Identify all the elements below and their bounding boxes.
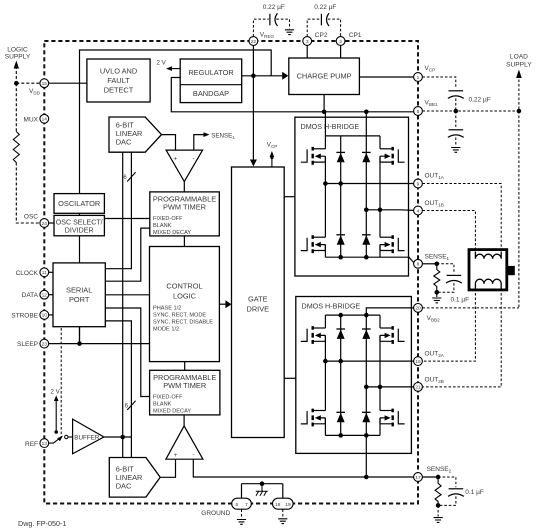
motor body bbox=[469, 250, 515, 290]
node charge pump VBB1 junction bbox=[322, 110, 327, 115]
node regulator output junction bbox=[251, 74, 256, 79]
pin 3 CP2 bbox=[303, 32, 328, 45]
svg-text:UVLO AND: UVLO AND bbox=[100, 67, 137, 76]
wire serial line2 to PWM1 blank bbox=[105, 228, 150, 281]
wire serial line4 to PWM2 bbox=[105, 308, 149, 397]
pin 21 OUT2B bbox=[414, 376, 444, 391]
svg-text:23: 23 bbox=[42, 341, 48, 347]
svg-text:0.22 µF: 0.22 µF bbox=[314, 4, 336, 11]
wire motor to OUT2A bbox=[422, 289, 475, 362]
wire cap to VBB1 line bbox=[455, 98, 457, 111]
pin 15 VDD bbox=[29, 79, 49, 96]
diode bridge2 upper left bbox=[336, 315, 345, 435]
pin 17 SENSE2 bbox=[414, 466, 452, 482]
pin 22 VREG bbox=[249, 32, 275, 46]
ground earth below VBB1 caps bbox=[451, 148, 460, 153]
svg-text:STROBE: STROBE bbox=[11, 312, 38, 319]
wire bridge2 sense drop bbox=[365, 435, 367, 477]
svg-text:SENSE1: SENSE1 bbox=[425, 253, 450, 261]
node sense1 bottom junction bbox=[435, 290, 440, 295]
transistor bridge2 low right bbox=[380, 387, 405, 436]
wire OUT1B to motor bbox=[422, 211, 475, 252]
svg-text:0.22 µF: 0.22 µF bbox=[263, 4, 285, 11]
node sense2 bus junction bbox=[364, 475, 369, 480]
svg-text:DAC: DAC bbox=[116, 481, 132, 490]
wire OUT1A node to pin 9 bbox=[325, 183, 413, 185]
svg-text:GROUND: GROUND bbox=[201, 510, 230, 517]
label 2V reference bbox=[51, 388, 61, 432]
wire OUT1B node to pin 4 bbox=[366, 209, 413, 212]
wire gate drive to bridge1 bbox=[284, 196, 295, 198]
svg-text:6: 6 bbox=[235, 502, 238, 508]
svg-text:REF: REF bbox=[25, 441, 38, 448]
svg-text:17: 17 bbox=[415, 475, 421, 481]
svg-text:19: 19 bbox=[285, 502, 291, 508]
wire VDD rail top (behind blocks) bbox=[49, 50, 271, 344]
pin 20 VBB2 bbox=[414, 304, 440, 323]
node buffer output junction bbox=[120, 435, 125, 440]
svg-text:5: 5 bbox=[417, 109, 420, 115]
ground earth sense2 bbox=[434, 518, 443, 523]
wire comparator1 output to PWM1 bbox=[183, 182, 185, 192]
wire OUT1A to motor bbox=[422, 184, 501, 252]
node sense2 bottom junction bbox=[436, 503, 441, 508]
capacitor 0.22uF at VREG bbox=[253, 4, 289, 37]
wire regulator to charge pump with arrow bbox=[242, 72, 289, 80]
wire bridge1 sense to pin 8 bbox=[380, 257, 414, 262]
wire DAC1 to comparator1 plus bbox=[162, 135, 176, 151]
block OSC SELECT / DIVIDER bbox=[54, 215, 104, 235]
svg-text:-: - bbox=[192, 452, 194, 459]
node bridge1 feed junction bbox=[364, 110, 369, 115]
svg-text:SYNC. RECT. DISABLE: SYNC. RECT. DISABLE bbox=[153, 320, 213, 326]
LOGIC SUPPLY label bbox=[5, 47, 31, 61]
svg-text:SENSE1: SENSE1 bbox=[211, 133, 235, 141]
svg-text:13: 13 bbox=[42, 441, 48, 447]
node buffer input bubble bbox=[65, 435, 73, 438]
node bridge2 rail diode right bbox=[364, 433, 369, 438]
node OUT1A diode bbox=[338, 181, 343, 186]
chip dashed border bbox=[44, 41, 418, 504]
svg-text:2 V: 2 V bbox=[157, 60, 167, 67]
svg-text:BLANK: BLANK bbox=[153, 402, 172, 408]
svg-text:11: 11 bbox=[42, 270, 47, 276]
svg-text:MIXED DECAY: MIXED DECAY bbox=[153, 409, 191, 415]
wire STROBE pin to serial port bbox=[49, 314, 53, 316]
pin 4 OUT1B bbox=[414, 200, 444, 215]
diode bridge1 lower left bbox=[336, 235, 345, 245]
wire serial line1 to DAC1 bus bbox=[105, 152, 131, 269]
pin 18 19 GROUND oval bbox=[273, 498, 294, 509]
svg-text:OSC: OSC bbox=[24, 214, 38, 221]
svg-text:OSC SELECT/: OSC SELECT/ bbox=[56, 219, 103, 227]
svg-text:Dwg. FP-050-1: Dwg. FP-050-1 bbox=[18, 519, 66, 528]
wire SLEEP line to control logic bbox=[49, 343, 150, 345]
svg-text:24: 24 bbox=[42, 221, 48, 227]
wire charge pump to VCP pin 1 bbox=[359, 76, 413, 78]
load supply arrow bbox=[516, 70, 522, 308]
node sleep junction bbox=[77, 341, 82, 346]
svg-text:CHARGE PUMP: CHARGE PUMP bbox=[297, 72, 352, 81]
node internal ground junction bbox=[260, 481, 265, 486]
svg-text:DMOS H-BRIDGE: DMOS H-BRIDGE bbox=[302, 301, 361, 310]
svg-text:FIXED-OFF: FIXED-OFF bbox=[153, 395, 183, 401]
wire VBB1 bus from regulator bbox=[171, 78, 413, 112]
svg-text:SYNC. RECT. MODE: SYNC. RECT. MODE bbox=[153, 313, 206, 319]
wire sense2 to earth bbox=[437, 505, 439, 516]
ground chassis symbol internal bbox=[256, 484, 268, 496]
svg-text:22: 22 bbox=[251, 39, 257, 45]
wire control logic to gate drive with arrow bbox=[219, 300, 231, 308]
node bridge2 rail left diode bbox=[338, 313, 343, 318]
transistor bridge1 high left bbox=[301, 136, 326, 184]
capacitor 0.22uF lower at VBB1 bbox=[448, 130, 464, 138]
capacitor 0.1uF sense2 bbox=[438, 477, 484, 505]
block DAC1 6-BIT LINEAR DAC bbox=[109, 117, 162, 152]
wire bridge1 feed left bbox=[324, 112, 326, 136]
diode bridge2 lower right bbox=[362, 412, 371, 422]
wire PWM2 to comparator2 bbox=[183, 415, 185, 426]
svg-text:8: 8 bbox=[417, 262, 420, 268]
svg-text:BLANK: BLANK bbox=[153, 223, 172, 229]
svg-text:SUPPLY: SUPPLY bbox=[506, 62, 532, 69]
wire bridge2 bottom rail bbox=[325, 434, 380, 436]
LOAD SUPPLY label bbox=[506, 54, 532, 69]
svg-text:MUX: MUX bbox=[24, 116, 39, 123]
svg-text:CONTROL: CONTROL bbox=[166, 282, 202, 291]
svg-text:PWM TIMER: PWM TIMER bbox=[163, 203, 206, 212]
bus slash 6 lower bbox=[125, 401, 136, 410]
svg-text:16: 16 bbox=[415, 359, 421, 365]
block DMOS H-BRIDGE 1 bbox=[295, 117, 409, 276]
wire VBB2 pin to bridge2 rail bbox=[366, 308, 413, 315]
svg-text:10: 10 bbox=[42, 313, 48, 319]
node bridge1 rail diode left bbox=[338, 255, 343, 260]
node OUT1B diode bbox=[364, 208, 369, 213]
svg-text:MIXED DECAY: MIXED DECAY bbox=[153, 230, 191, 236]
wire comparator1 minus to SENSE1 label bbox=[194, 132, 235, 150]
svg-text:4: 4 bbox=[417, 208, 420, 214]
wire CP2 pin to charge pump bbox=[306, 46, 308, 58]
svg-text:+: + bbox=[173, 155, 177, 162]
wire REF divider dashed bbox=[60, 328, 62, 437]
svg-text:PHASE 1/2: PHASE 1/2 bbox=[153, 306, 181, 312]
wire ground pin 18 19 to earth bbox=[282, 509, 284, 518]
block REGULATOR / BANDGAP bbox=[180, 59, 242, 103]
ground earth at VREG cap bbox=[285, 30, 294, 35]
svg-text:SUPPLY: SUPPLY bbox=[5, 54, 31, 61]
block DAC2 6-BIT LINEAR DAC bbox=[109, 458, 160, 498]
svg-text:CP2: CP2 bbox=[315, 32, 328, 39]
wire internal ground bus bbox=[242, 484, 283, 499]
svg-text:12: 12 bbox=[42, 293, 48, 299]
svg-text:2: 2 bbox=[339, 39, 342, 45]
svg-text:REGULATOR: REGULATOR bbox=[188, 68, 233, 77]
capacitor 0.1uF sense1 bbox=[437, 264, 469, 304]
op-amp comparator 2 bbox=[166, 426, 203, 459]
svg-text:1: 1 bbox=[417, 75, 420, 81]
wire bridge2 top rail bbox=[325, 314, 380, 316]
wire serial line3 to control logic bbox=[105, 294, 149, 296]
wire DAC reference bus bbox=[122, 152, 124, 457]
wire bridge1 top rail bbox=[325, 135, 380, 137]
wire REF pin wiper arrow bbox=[49, 436, 63, 443]
resistor R-OSC bbox=[13, 132, 19, 163]
diode bridge1 upper right bbox=[362, 136, 371, 257]
pin 6 7 GROUND oval bbox=[232, 498, 252, 509]
wire logic supply to VDD pin bbox=[16, 82, 40, 84]
op-amp comparator 1 bbox=[166, 150, 203, 182]
svg-text:LOGIC: LOGIC bbox=[7, 47, 28, 54]
wire bridge1 bottom rail bbox=[325, 256, 380, 258]
block DMOS H-BRIDGE 2 bbox=[296, 297, 412, 454]
node OUT2B leg bbox=[378, 385, 383, 390]
svg-text:14: 14 bbox=[42, 117, 48, 123]
pin 23 SLEEP bbox=[17, 339, 49, 348]
transistor bridge2 low left bbox=[301, 361, 326, 435]
wire serial port bottom stub bbox=[79, 327, 81, 344]
diode bridge2 lower left bbox=[336, 412, 345, 422]
svg-text:PORT: PORT bbox=[69, 295, 90, 304]
svg-text:FAULT: FAULT bbox=[107, 76, 130, 85]
pin 12 DATA bbox=[22, 290, 49, 299]
ground earth sense1 bbox=[432, 292, 441, 303]
pin 10 STROBE bbox=[11, 311, 48, 320]
svg-text:21: 21 bbox=[415, 385, 421, 391]
wire logic supply down to resistor bbox=[15, 83, 17, 131]
pin 24 OSC bbox=[24, 214, 49, 228]
wire resistor to OSC pin bbox=[16, 163, 40, 224]
transistor bridge2 high left bbox=[301, 315, 326, 361]
wire charge pump bottom to VBB1 bus bbox=[323, 95, 325, 112]
pin 9 OUT1A bbox=[414, 173, 445, 188]
wire CP1 pin to charge pump bbox=[340, 46, 342, 58]
svg-text:DRIVE: DRIVE bbox=[247, 305, 270, 314]
wire CLOCK pin to serial port bbox=[49, 271, 53, 273]
ground earth below pins 6 7 bbox=[237, 520, 246, 525]
svg-text:DETECT: DETECT bbox=[104, 86, 134, 95]
wire lower cap to ground bbox=[455, 137, 457, 146]
pin 8 SENSE1 bbox=[414, 253, 450, 268]
block SERIAL PORT bbox=[53, 263, 105, 327]
wire OSC SELECT to PWM timer 1 bbox=[104, 218, 149, 220]
inductor motor winding 1 bbox=[475, 252, 501, 259]
node OUT2A leg bbox=[323, 359, 328, 364]
svg-text:+: + bbox=[174, 452, 178, 459]
wire comparator2 minus to sense bus bbox=[193, 459, 413, 477]
block CONTROL LOGIC bbox=[150, 247, 220, 362]
wire VBB1 to lower cap bbox=[455, 111, 457, 127]
wire control logic to PWM2 bbox=[184, 362, 186, 371]
svg-text:FIXED-OFF: FIXED-OFF bbox=[153, 216, 183, 222]
block UVLO AND FAULT DETECT bbox=[87, 59, 150, 102]
label 2V regulator output bbox=[157, 60, 181, 71]
svg-text:15: 15 bbox=[42, 81, 48, 87]
wire ground pin 6 7 to earth bbox=[241, 509, 243, 518]
pin 14 MUX bbox=[24, 114, 49, 123]
transistor bridge2 high right bbox=[380, 315, 405, 387]
wire SENSE2 pin to RC bbox=[422, 476, 438, 478]
svg-text:GATE: GATE bbox=[248, 295, 268, 304]
transistor bridge1 low left bbox=[301, 184, 326, 258]
svg-text:BUFFER: BUFFER bbox=[74, 434, 100, 441]
svg-text:9: 9 bbox=[417, 181, 420, 187]
block OSCILATOR bbox=[54, 194, 104, 214]
diode bridge1 lower right bbox=[362, 235, 371, 245]
pin 11 CLOCK bbox=[16, 268, 49, 277]
wire DAC2 to comparator2 plus bbox=[160, 459, 175, 477]
node logic supply junction bbox=[14, 81, 19, 86]
capacitor 0.22uF upper at VBB1 bbox=[448, 91, 464, 99]
node OUT2B diode bbox=[364, 385, 369, 390]
svg-text:SERIAL: SERIAL bbox=[66, 286, 92, 295]
wire SENSE1 pin to RC bbox=[422, 263, 436, 265]
ground earth below pins 18 19 bbox=[278, 519, 287, 524]
block PWM TIMER 2 bbox=[150, 370, 220, 415]
node bridge2 rail diode left bbox=[338, 433, 343, 438]
node OUT1B leg bbox=[378, 208, 383, 213]
svg-text:DATA: DATA bbox=[22, 292, 39, 299]
svg-text:MODE 1/2: MODE 1/2 bbox=[153, 327, 179, 333]
svg-text:2 V: 2 V bbox=[51, 388, 61, 395]
resistor sense1 bbox=[434, 264, 440, 293]
svg-text:DIVIDER: DIVIDER bbox=[65, 227, 94, 235]
svg-text:3: 3 bbox=[306, 39, 309, 45]
logic supply arrow bbox=[14, 61, 19, 81]
svg-text:-: - bbox=[192, 155, 194, 162]
diode bridge1 upper left bbox=[336, 136, 345, 257]
wire motor to OUT2B bbox=[422, 289, 501, 387]
block BUFFER bbox=[73, 419, 104, 454]
transistor bridge1 high right bbox=[380, 136, 405, 210]
pin 1 VCP bbox=[414, 65, 436, 81]
label VCP at gate drive bbox=[267, 142, 278, 168]
wire PWM1 to control logic bbox=[183, 236, 185, 247]
node REF wiper junction bbox=[54, 430, 58, 434]
svg-text:0.1 µF: 0.1 µF bbox=[465, 489, 484, 496]
svg-text:0.22 µF: 0.22 µF bbox=[469, 96, 491, 103]
svg-text:CP1: CP1 bbox=[349, 32, 362, 39]
node bridge2 rail right diode bbox=[364, 313, 369, 318]
wire pin22 down to gate drive bbox=[252, 46, 254, 161]
node sense1 top junction bbox=[435, 262, 440, 267]
wire serial line5 to DAC2 bus bbox=[105, 321, 131, 458]
wire buffer output to DAC bus bbox=[104, 436, 131, 438]
svg-text:0.1 µF: 0.1 µF bbox=[451, 297, 470, 304]
transistor bridge1 low right bbox=[380, 210, 405, 257]
inductor motor winding 2 bbox=[475, 279, 501, 288]
capacitor 0.22uF at CP2 CP1 bbox=[307, 4, 340, 37]
wire VCP pin to cap chain bbox=[422, 77, 455, 88]
bus slash 6 upper bbox=[123, 172, 135, 181]
wire bridge1 feed right bbox=[365, 112, 367, 136]
wire OUT2A node to pin 16 bbox=[325, 360, 413, 362]
wire gate drive to bridge2 bbox=[284, 377, 296, 379]
node OUT1A left bbox=[323, 181, 328, 186]
wire OUT2B node to pin 21 bbox=[366, 386, 413, 388]
block PWM TIMER 1 bbox=[150, 192, 220, 236]
pin 16 OUT2A bbox=[414, 351, 445, 366]
node VBB1 cap junction bbox=[454, 109, 459, 114]
resistor sense2 bbox=[435, 477, 441, 505]
node OUT2A diode bbox=[338, 359, 343, 364]
svg-text:BANDGAP: BANDGAP bbox=[193, 89, 229, 98]
pin 5 VBB1 bbox=[414, 100, 438, 116]
wire OSC pin to OSC SELECT bbox=[49, 222, 54, 224]
svg-text:20: 20 bbox=[415, 306, 421, 312]
svg-text:DMOS H-BRIDGE: DMOS H-BRIDGE bbox=[301, 122, 360, 131]
arrow VCP into gate drive bbox=[250, 160, 257, 167]
node sense2 top junction bbox=[436, 475, 441, 480]
pin 13 REF bbox=[25, 439, 49, 448]
svg-text:18: 18 bbox=[275, 502, 281, 508]
svg-text:CLOCK: CLOCK bbox=[16, 270, 39, 277]
diode bridge2 upper right bbox=[362, 315, 371, 435]
node load supply junction bbox=[517, 109, 522, 114]
svg-text:SLEEP: SLEEP bbox=[17, 341, 38, 348]
pin 2 CP1 bbox=[336, 32, 362, 45]
svg-text:LOAD: LOAD bbox=[510, 54, 528, 61]
wire DATA pin to serial port bbox=[49, 294, 53, 296]
svg-text:PWM TIMER: PWM TIMER bbox=[163, 381, 206, 390]
svg-text:OSCILATOR: OSCILATOR bbox=[58, 199, 100, 208]
svg-text:SENSE2: SENSE2 bbox=[427, 466, 452, 474]
block GATE DRIVE bbox=[232, 167, 285, 438]
wire VBB2 pin to load supply bbox=[422, 307, 519, 309]
svg-text:LOGIC: LOGIC bbox=[173, 292, 197, 301]
svg-text:7: 7 bbox=[245, 502, 248, 508]
wire VBB1 pin to load supply bbox=[422, 110, 519, 112]
block CHARGE PUMP bbox=[289, 58, 360, 95]
svg-text:DAC: DAC bbox=[116, 137, 132, 146]
node bridge1 rail diode right bbox=[364, 255, 369, 260]
